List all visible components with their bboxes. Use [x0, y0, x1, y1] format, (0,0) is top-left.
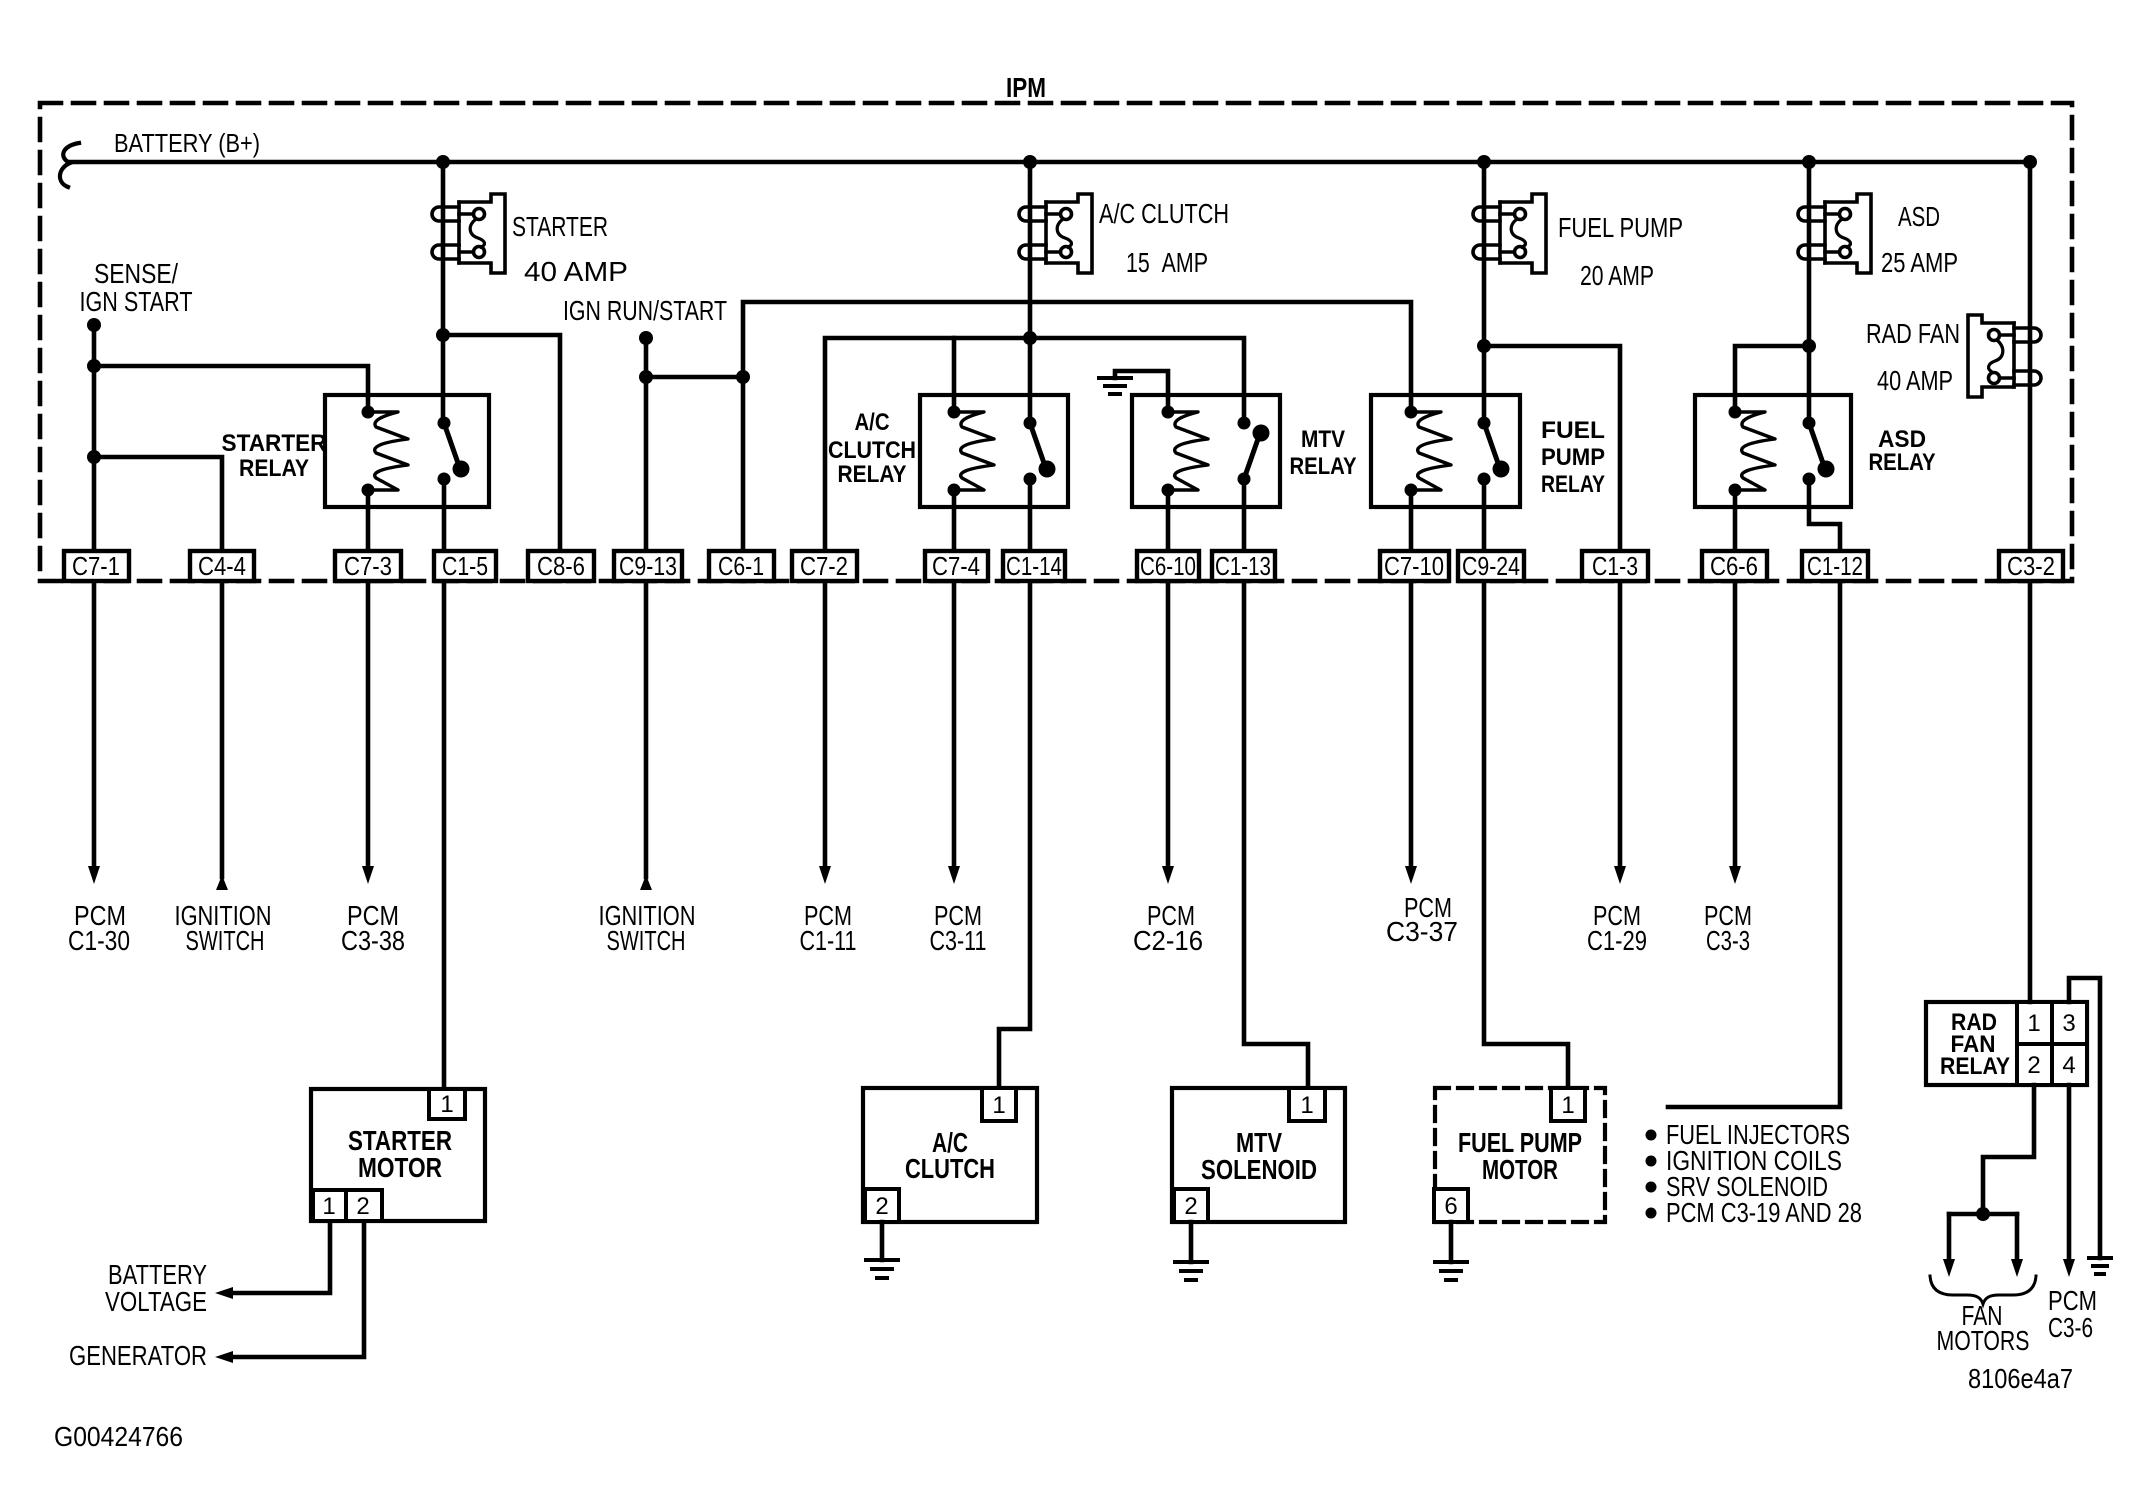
- svg-text:40 AMP: 40 AMP: [524, 256, 628, 287]
- svg-text:FUEL PUMP: FUEL PUMP: [1558, 212, 1683, 243]
- svg-text:IPM: IPM: [1006, 72, 1046, 103]
- svg-text:C7-2: C7-2: [800, 551, 848, 581]
- svg-text:40 AMP: 40 AMP: [1877, 365, 1953, 396]
- svg-text:RELAY: RELAY: [1869, 449, 1936, 476]
- svg-text:C3-6: C3-6: [2048, 1312, 2093, 1343]
- svg-text:20 AMP: 20 AMP: [1580, 260, 1654, 291]
- svg-text:C1-5: C1-5: [442, 551, 488, 581]
- svg-text:RELAY: RELAY: [1290, 453, 1357, 480]
- svg-text:C9-13: C9-13: [619, 551, 677, 581]
- svg-text:FUEL: FUEL: [1541, 417, 1605, 444]
- svg-text:ASD: ASD: [1898, 201, 1940, 232]
- svg-text:3: 3: [2062, 1010, 2075, 1037]
- svg-text:PUMP: PUMP: [1541, 444, 1605, 471]
- svg-text:STARTER: STARTER: [222, 430, 327, 457]
- svg-text:C6-6: C6-6: [1710, 551, 1758, 581]
- svg-text:C1-12: C1-12: [1807, 551, 1863, 581]
- svg-text:1: 1: [2027, 1010, 2040, 1037]
- svg-text:C1-30: C1-30: [68, 925, 130, 956]
- svg-text:1: 1: [440, 1091, 453, 1118]
- svg-text:G00424766: G00424766: [54, 1421, 183, 1452]
- svg-text:C4-4: C4-4: [198, 551, 246, 581]
- svg-text:SWITCH: SWITCH: [607, 925, 686, 956]
- svg-text:GENERATOR: GENERATOR: [69, 1340, 207, 1371]
- svg-text:SOLENOID: SOLENOID: [1201, 1154, 1317, 1185]
- svg-text:BATTERY (B+): BATTERY (B+): [114, 128, 260, 158]
- svg-text:C3-3: C3-3: [1706, 925, 1750, 956]
- svg-text:C8-6: C8-6: [537, 551, 585, 581]
- svg-text:C3-2: C3-2: [2007, 551, 2055, 581]
- svg-text:C7-3: C7-3: [344, 551, 392, 581]
- svg-text:15 AMP: 15 AMP: [1126, 247, 1208, 278]
- svg-text:C7-10: C7-10: [1384, 551, 1444, 581]
- svg-text:2: 2: [875, 1193, 888, 1220]
- svg-text:CLUTCH: CLUTCH: [905, 1153, 995, 1184]
- svg-text:C3-37: C3-37: [1386, 916, 1458, 947]
- svg-text:MOTORS: MOTORS: [1937, 1325, 2030, 1356]
- svg-text:RELAY: RELAY: [1940, 1053, 2010, 1080]
- svg-text:CLUTCH: CLUTCH: [828, 437, 916, 464]
- svg-text:4: 4: [2062, 1052, 2075, 1079]
- svg-text:2: 2: [2027, 1052, 2040, 1079]
- svg-text:IGN START: IGN START: [80, 286, 193, 317]
- svg-text:STARTER: STARTER: [512, 211, 608, 242]
- svg-text:C1-11: C1-11: [800, 925, 857, 956]
- svg-text:MOTOR: MOTOR: [1482, 1154, 1558, 1185]
- svg-text:MOTOR: MOTOR: [358, 1152, 442, 1183]
- svg-text:C6-10: C6-10: [1140, 551, 1196, 581]
- svg-text:C1-3: C1-3: [1592, 551, 1638, 581]
- svg-text:1: 1: [992, 1092, 1005, 1119]
- svg-text:A/C: A/C: [855, 409, 890, 436]
- svg-text:RAD FAN: RAD FAN: [1866, 318, 1960, 349]
- svg-text:C6-1: C6-1: [718, 551, 764, 581]
- svg-text:IGN RUN/START: IGN RUN/START: [563, 295, 727, 326]
- svg-text:25 AMP: 25 AMP: [1881, 247, 1958, 278]
- svg-text:2: 2: [356, 1193, 369, 1220]
- svg-text:RELAY: RELAY: [239, 455, 309, 482]
- svg-text:8106e4a7: 8106e4a7: [1968, 1363, 2073, 1394]
- svg-text:C1-29: C1-29: [1587, 925, 1647, 956]
- svg-text:RELAY: RELAY: [838, 461, 907, 488]
- svg-text:VOLTAGE: VOLTAGE: [105, 1286, 207, 1317]
- svg-text:1: 1: [322, 1193, 335, 1220]
- svg-text:C7-1: C7-1: [72, 551, 120, 581]
- svg-text:SENSE/: SENSE/: [94, 258, 178, 289]
- svg-text:SWITCH: SWITCH: [186, 925, 265, 956]
- svg-text:PCM C3-19 AND 28: PCM C3-19 AND 28: [1666, 1197, 1862, 1228]
- svg-text:A/C CLUTCH: A/C CLUTCH: [1099, 198, 1229, 229]
- svg-text:C7-4: C7-4: [932, 551, 980, 581]
- svg-text:1: 1: [1561, 1092, 1574, 1119]
- svg-text:C2-16: C2-16: [1133, 925, 1203, 956]
- svg-text:2: 2: [1184, 1193, 1197, 1220]
- svg-text:C1-14: C1-14: [1006, 551, 1062, 581]
- svg-text:C3-38: C3-38: [341, 925, 405, 956]
- svg-text:1: 1: [1300, 1092, 1313, 1119]
- svg-text:C3-11: C3-11: [930, 925, 987, 956]
- svg-text:C9-24: C9-24: [1462, 551, 1520, 581]
- svg-text:6: 6: [1444, 1193, 1457, 1220]
- svg-text:C1-13: C1-13: [1215, 551, 1271, 581]
- svg-text:RELAY: RELAY: [1541, 471, 1605, 498]
- svg-text:MTV: MTV: [1301, 426, 1345, 453]
